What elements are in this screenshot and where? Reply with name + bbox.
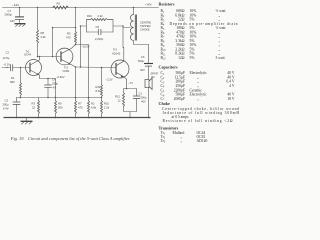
- svg-text:3.3k: 3.3k: [41, 35, 47, 39]
- svg-text:6.8k: 6.8k: [91, 106, 97, 110]
- svg-text:2000μF: 2000μF: [174, 97, 185, 101]
- svg-text:22: 22: [32, 106, 35, 110]
- svg-text:C4: C4: [52, 78, 56, 82]
- resistor R10: [101, 98, 110, 118]
- node junction at 47.5,97: [47, 97, 49, 99]
- resistor R11: [96, 68, 113, 98]
- svg-text:4 V: 4 V: [229, 84, 235, 88]
- svg-text:Tr2: Tr2: [64, 65, 68, 69]
- transistor Tr2: [56, 45, 75, 74]
- svg-text:3 watt: 3 watt: [216, 56, 225, 60]
- svg-text:−7V: −7V: [128, 81, 133, 85]
- transistor Tr1: [24, 49, 42, 78]
- svg-text:R10: R10: [104, 102, 109, 106]
- svg-text:Fig. 19. Circuit and compone: Fig. 19. Circuit and component list of t…: [10, 136, 130, 141]
- svg-text:R10: R10: [87, 14, 92, 18]
- node junction at 129.5,117: [129, 117, 131, 119]
- svg-text:470: 470: [78, 106, 83, 110]
- svg-text:Resistance of full winding <2Ω: Resistance of full winding <2Ω: [163, 119, 233, 123]
- svg-text:Resistors: Resistors: [159, 2, 175, 7]
- ground (bottom rail): [21, 118, 33, 125]
- wire mid horizontal line: [17, 97, 102, 99]
- node junction at 16,117: [16, 117, 18, 119]
- svg-text:R11: R11: [96, 85, 101, 89]
- svg-text:500μ: 500μ: [138, 59, 144, 63]
- resistor R9: [55, 98, 63, 118]
- svg-text:TAPPED: TAPPED: [140, 24, 151, 28]
- node junction at 75,66.5: [75, 66, 77, 68]
- svg-text:C1: C1: [139, 92, 143, 96]
- node junction at 88,97: [88, 97, 90, 99]
- svg-text:500μ: 500μ: [141, 96, 147, 100]
- svg-text:40V: 40V: [140, 68, 145, 72]
- node junction at 39,56: [39, 56, 41, 58]
- node junction at 126,88: [126, 88, 128, 90]
- svg-text:3Ω: 3Ω: [151, 75, 155, 79]
- svg-text:Tr3: Tr3: [113, 48, 117, 52]
- node junction at 148,117: [148, 117, 150, 119]
- svg-text:AD140: AD140: [112, 52, 121, 56]
- svg-text:R5: R5: [67, 32, 71, 36]
- svg-text:C5: C5: [96, 25, 100, 29]
- wire Tr2 emitter down / feedback join: [76, 26, 81, 98]
- node junction at 80,66.5: [80, 66, 82, 68]
- capacitor C7: [5, 8, 25, 24]
- svg-text:−0.1V: −0.1V: [3, 63, 10, 67]
- svg-text:250μ: 250μ: [52, 82, 58, 86]
- ground (below C7): [15, 24, 26, 27]
- svg-text:R12: R12: [115, 95, 120, 99]
- resistor R6 (series in rail): [53, 6, 69, 9]
- resistor R8: [37, 8, 47, 57]
- inductor centre tapped choke: [130, 8, 151, 41]
- node junction at 101,67: [101, 67, 103, 69]
- capacitor C3: [3, 98, 21, 118]
- node junction at 122.5,25.5: [122, 25, 124, 27]
- speaker: [145, 72, 158, 118]
- node junction at 80,25.5: [80, 25, 82, 27]
- svg-text:12.5μ: 12.5μ: [3, 56, 10, 60]
- resistor R1: [10, 67, 22, 98]
- resistor R12: [115, 93, 125, 107]
- node junction at 55,117: [55, 117, 57, 119]
- wire choke tap column: [123, 26, 130, 48]
- svg-text:AD140: AD140: [197, 139, 208, 143]
- svg-text:2.2k: 2.2k: [104, 106, 110, 110]
- svg-text:R6: R6: [57, 2, 61, 6]
- svg-text:Choke: Choke: [159, 101, 171, 106]
- svg-text:200μ: 200μ: [3, 103, 9, 107]
- svg-text:R7: R7: [78, 102, 82, 106]
- svg-text:C7: C7: [8, 9, 12, 13]
- resistor R3: [32, 98, 40, 118]
- svg-text:CHOKE: CHOKE: [140, 27, 150, 31]
- svg-text:18 V: 18 V: [227, 97, 235, 101]
- svg-text:5%: 5%: [190, 56, 195, 60]
- svg-text:R2: R2: [91, 102, 95, 106]
- svg-text:C3: C3: [5, 99, 9, 103]
- capacitor C4: [44, 78, 58, 98]
- node junction at 75,7: [75, 7, 77, 9]
- capacitor C1: [133, 92, 147, 104]
- node junction at 38,117: [38, 117, 40, 119]
- wire Tr1 emitter line: [40, 79, 56, 98]
- resistor R7: [75, 98, 83, 118]
- svg-text:2.2k: 2.2k: [98, 14, 104, 18]
- svg-text:−14V: −14V: [145, 3, 152, 7]
- wire Tr2 collector node: [76, 45, 89, 98]
- transistor Tr3: [111, 48, 129, 89]
- svg-text:C6: C6: [141, 55, 145, 59]
- svg-text:−14V: −14V: [12, 3, 19, 7]
- node junction at 47.5,78: [47, 78, 49, 80]
- svg-text:4V: 4V: [53, 86, 56, 90]
- node junction at 88,117: [88, 117, 90, 119]
- node junction at 75,97: [75, 97, 77, 99]
- svg-text:OC44: OC44: [24, 52, 32, 56]
- svg-text:2000μ: 2000μ: [5, 13, 13, 17]
- svg-text:R9: R9: [58, 102, 62, 106]
- node junction at 19,7: [19, 7, 21, 9]
- svg-text:Capacitors: Capacitors: [159, 65, 179, 70]
- svg-text:½ watt: ½ watt: [216, 26, 226, 30]
- svg-text:680: 680: [10, 80, 15, 84]
- node junction at 52,27: [52, 27, 54, 29]
- wire feedback line to bias column: [53, 28, 76, 57]
- svg-text:C2: C2: [6, 51, 10, 55]
- wire node line (Tr1 collector to Tr2 base): [38, 56, 57, 58]
- svg-text:40V: 40V: [141, 100, 146, 104]
- node junction at 20,67: [20, 67, 22, 69]
- wire top supply rail: [3, 7, 159, 9]
- resistor R5: [66, 8, 77, 45]
- svg-text:R3: R3: [32, 102, 36, 106]
- svg-text:½ watt: ½ watt: [216, 9, 226, 13]
- capacitor C6 (output coupling): [138, 45, 153, 80]
- svg-text:470: 470: [66, 36, 71, 40]
- svg-text:−0.62V: −0.62V: [56, 75, 65, 79]
- svg-text:18V: 18V: [10, 19, 15, 23]
- node junction at 133,7: [133, 7, 135, 9]
- node junction at 75,44: [75, 44, 77, 46]
- node junction at 55,97: [55, 97, 57, 99]
- node junction at 75,27: [75, 27, 77, 29]
- wire bottom ground rail: [4, 117, 151, 119]
- node junction at 101,117: [101, 117, 103, 119]
- svg-text:Transistors: Transistors: [159, 126, 179, 131]
- svg-text:CENTRE: CENTRE: [140, 21, 151, 25]
- wire Tr3 base line: [76, 66, 117, 69]
- node junction at 37,56: [37, 56, 39, 58]
- node junction at 6.5,67: [6, 67, 7, 68]
- svg-text:560: 560: [58, 106, 63, 110]
- resistor R10 C5 feedback network: [81, 14, 124, 41]
- svg-text:R8: R8: [41, 31, 45, 35]
- wire choke bottom to output: [134, 41, 149, 45]
- svg-text:8.2k: 8.2k: [96, 89, 102, 93]
- svg-text:12: 12: [118, 99, 121, 103]
- svg-text:SPKR: SPKR: [151, 72, 158, 76]
- node junction at 75,117: [75, 117, 77, 119]
- svg-text:OC81: OC81: [62, 69, 70, 73]
- resistor R2: [88, 98, 97, 118]
- node junction at 101,97: [101, 97, 103, 99]
- svg-text:R1: R1: [11, 76, 15, 80]
- svg-text:2,200p: 2,200p: [95, 37, 104, 41]
- node junction at 52,56: [52, 56, 54, 58]
- svg-text:6.4V: 6.4V: [3, 107, 9, 111]
- node junction at 37,7: [37, 7, 39, 9]
- node junction at 20,97: [20, 97, 22, 99]
- capacitor C2 (input): [2, 51, 30, 72]
- svg-text:−2.2V: −2.2V: [106, 78, 113, 82]
- svg-text:Mullard: Mullard: [173, 131, 185, 135]
- svg-text:12Ω: 12Ω: [178, 56, 185, 60]
